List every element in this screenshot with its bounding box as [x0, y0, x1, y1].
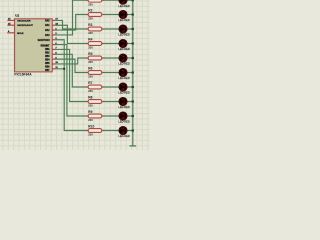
svg-text:LED-RED: LED-RED — [118, 4, 130, 8]
svg-text:220: 220 — [88, 17, 93, 21]
svg-text:220: 220 — [88, 2, 93, 6]
grid background — [0, 0, 150, 150]
right pin 3 stub — [52, 39, 56, 41]
junction node row 6 — [132, 71, 134, 73]
svg-text:RA2: RA2 — [45, 29, 50, 32]
wire LED D3 to vertical rail — [127, 28, 133, 30]
svg-text:LED-RED: LED-RED — [118, 76, 130, 80]
wire resistor R9 to LED D9 — [102, 115, 119, 117]
svg-text:220: 220 — [88, 60, 93, 64]
left pin 16 OSC1/CLKIN stub — [7, 19, 14, 21]
svg-text:LED-RED: LED-RED — [118, 134, 130, 138]
junction node row 1 — [132, 0, 134, 1]
wire net row 10: chip pin to resistor R10 — [56, 40, 89, 131]
junction node row 5 — [132, 57, 134, 59]
junction node row 8 — [132, 100, 134, 102]
wire LED D8 to vertical rail — [127, 101, 133, 103]
junction node row 4 — [132, 42, 134, 44]
svg-text:R7: R7 — [88, 81, 92, 85]
wire LED D9 to vertical rail — [127, 115, 133, 117]
svg-text:220: 220 — [88, 133, 93, 137]
wire from pin 11 (RB5) joining vertical net — [56, 68, 64, 70]
resistor R4 body — [88, 42, 102, 46]
right pin 6 stub — [52, 44, 56, 46]
resistor R4 pin stubs — [86, 43, 88, 45]
svg-text:LED-RED: LED-RED — [118, 91, 130, 95]
svg-text:R3: R3 — [88, 23, 92, 27]
resistor R1 body — [88, 0, 102, 2]
svg-text:RB1: RB1 — [45, 49, 50, 51]
junction node at pin 11 wire — [63, 68, 65, 70]
resistor R5 pin stubs — [86, 57, 88, 59]
svg-text:LED-RED: LED-RED — [118, 33, 130, 37]
wire net row 7: chip pin to resistor R7 — [56, 54, 89, 87]
junction node row 9 — [132, 115, 134, 117]
resistor R6 body — [88, 71, 102, 75]
resistor R5 body — [88, 56, 102, 60]
wire resistor R1 to LED D1 — [102, 0, 119, 1]
svg-text:RB4: RB4 — [45, 58, 50, 61]
svg-text:R5: R5 — [88, 52, 92, 56]
wire LED D2 to vertical rail — [127, 14, 133, 16]
wire net row 5: chip pin to resistor R5 — [56, 58, 89, 64]
resistor R8 pin stubs — [86, 101, 88, 103]
wire net row 9: chip pin to resistor R9 — [56, 45, 89, 116]
resistor R2 pin stubs — [86, 14, 88, 16]
ground terminal at rail bottom — [130, 145, 137, 147]
svg-text:220: 220 — [88, 89, 93, 93]
junction node row 10 — [132, 129, 134, 131]
LED D1 — [119, 0, 127, 4]
svg-text:220: 220 — [88, 104, 93, 108]
wire resistor R10 to LED D10 — [102, 130, 119, 132]
LED D6 — [119, 68, 127, 76]
svg-text:LED-RED: LED-RED — [118, 120, 130, 124]
svg-text:PIC16F84A: PIC16F84A — [14, 73, 32, 77]
right pin 10 stub — [52, 63, 56, 65]
svg-text:LED-RED: LED-RED — [118, 18, 130, 22]
resistor R9 pin stubs — [86, 115, 88, 117]
svg-text:LED-RED: LED-RED — [118, 47, 130, 51]
svg-text:220: 220 — [88, 118, 93, 122]
resistor R10 body — [88, 129, 102, 133]
LED D8 — [119, 97, 127, 105]
svg-text:220: 220 — [88, 31, 93, 35]
wire LED D10 to vertical rail — [127, 130, 133, 132]
svg-text:RB0/INT: RB0/INT — [41, 45, 51, 47]
junction node row 7 — [132, 86, 134, 88]
wire resistor R6 to LED D6 — [102, 72, 119, 74]
right pin 9 stub — [52, 58, 56, 60]
svg-text:RB2: RB2 — [45, 52, 50, 54]
resistor R7 pin stubs — [86, 86, 88, 88]
vertical rail net on right — [132, 0, 134, 146]
svg-text:R2: R2 — [88, 9, 92, 13]
resistor R1 pin stubs — [86, 0, 88, 1]
wire resistor R2 to LED D2 — [102, 14, 119, 16]
wire net row 3: chip pin to resistor R3 — [56, 20, 89, 29]
junction node row 2 — [132, 13, 134, 15]
svg-text:R6: R6 — [88, 67, 92, 71]
LED D10 — [119, 126, 127, 134]
wire LED D1 to vertical rail — [127, 0, 133, 1]
LED D2 — [119, 10, 127, 18]
wire resistor R4 to LED D4 — [102, 43, 119, 45]
wire resistor R3 to LED D3 — [102, 28, 119, 30]
resistor R3 body — [88, 27, 102, 31]
svg-text:220: 220 — [88, 46, 93, 50]
wire LED D7 to vertical rail — [127, 86, 133, 88]
wire resistor R8 to LED D8 — [102, 101, 119, 103]
svg-text:RB6: RB6 — [45, 66, 50, 68]
right pin 7 stub — [52, 48, 56, 50]
svg-text:R4: R4 — [88, 38, 92, 42]
svg-text:220: 220 — [88, 75, 93, 79]
wire LED D6 to vertical rail — [127, 72, 133, 74]
svg-text:LED-RED: LED-RED — [118, 62, 130, 66]
resistor R9 body — [88, 114, 102, 118]
svg-text:RA3: RA3 — [45, 34, 50, 37]
right pin 1 stub — [52, 29, 56, 31]
wire resistor R7 to LED D7 — [102, 86, 119, 88]
svg-text:RB5: RB5 — [45, 63, 50, 65]
LED D9 — [119, 112, 127, 120]
right pin 2 stub — [52, 34, 56, 36]
LED D4 — [119, 39, 127, 47]
svg-text:LED-RED: LED-RED — [118, 105, 130, 109]
wire net row 6: chip pin to resistor R6 — [56, 59, 89, 72]
svg-text:MCLR: MCLR — [17, 33, 24, 35]
svg-text:RA1: RA1 — [45, 24, 50, 27]
resistor R7 body — [88, 85, 102, 89]
svg-text:R9: R9 — [88, 110, 92, 114]
LED D5 — [119, 54, 127, 62]
resistor R6 pin stubs — [86, 72, 88, 74]
wire net row 2: chip pin to resistor R2 — [56, 15, 89, 31]
LED D3 — [119, 25, 127, 33]
svg-text:R8: R8 — [88, 96, 92, 100]
resistor R8 body — [88, 100, 102, 104]
resistor R10 pin stubs — [86, 130, 88, 132]
left pin 4 MCLR stub — [7, 32, 14, 34]
left pin 15 OSC2/CLKOUT stub — [7, 24, 14, 26]
wire resistor R5 to LED D5 — [102, 57, 119, 59]
svg-text:RA4/T0CKI: RA4/T0CKI — [38, 39, 50, 42]
svg-text:U1: U1 — [15, 14, 19, 18]
wire net row 1: chip pin to resistor R1 — [56, 0, 89, 35]
svg-text:RA0: RA0 — [45, 19, 50, 22]
microcontroller U1 PIC16F84A body — [15, 19, 53, 72]
svg-text:R10: R10 — [88, 125, 94, 129]
svg-text:OSC1/CLKIN: OSC1/CLKIN — [17, 20, 31, 22]
junction node row 3 — [132, 28, 134, 30]
wire net row 8: chip pin to resistor R8 — [56, 49, 89, 101]
wire LED D5 to vertical rail — [127, 57, 133, 59]
svg-text:RB7: RB7 — [45, 70, 50, 72]
svg-text:RB3: RB3 — [45, 56, 50, 58]
wire LED D4 to vertical rail — [127, 43, 133, 45]
resistor R3 pin stubs — [86, 28, 88, 30]
right pin 17 stub — [52, 19, 56, 21]
wire net row 4: chip pin to resistor R4 — [56, 25, 89, 43]
svg-text:OSC2/CLKOUT: OSC2/CLKOUT — [17, 25, 33, 27]
LED D7 — [119, 83, 127, 91]
right pin 8 stub — [52, 53, 56, 55]
right pin 11 stub — [52, 68, 56, 70]
right pin 18 stub — [52, 24, 56, 26]
resistor R2 body — [88, 13, 102, 17]
